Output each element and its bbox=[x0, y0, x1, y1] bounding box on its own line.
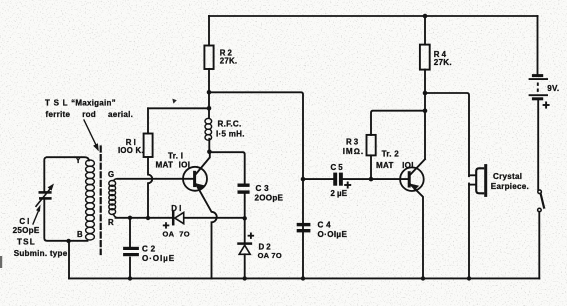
svg-text:9V.: 9V. bbox=[547, 84, 559, 93]
junction dot earpiece tap bbox=[423, 91, 428, 96]
svg-text:27K.: 27K. bbox=[220, 56, 238, 65]
wire: left drop from aerial coil bottom to ground rail bbox=[68, 241, 70, 278]
svg-text:TSL: TSL bbox=[17, 238, 36, 247]
battery plus sign bbox=[543, 102, 550, 109]
svg-text:R: R bbox=[108, 218, 114, 227]
transistor Tr1 collector lead bbox=[196, 152, 210, 174]
junction dot R3 top node bbox=[423, 108, 428, 113]
junction dot C2 tap bbox=[128, 216, 132, 220]
capacitor C4 bbox=[297, 225, 311, 231]
earpiece top terminal stub bbox=[469, 174, 476, 176]
junction dot R3 bottom bbox=[369, 177, 374, 182]
ferrite rod dashed line bbox=[100, 147, 102, 255]
junction dot D2 ground bbox=[243, 276, 247, 280]
RFC choke coil bbox=[205, 118, 212, 140]
resistor R4 bbox=[424, 16, 426, 45]
svg-text:Tr. 2: Tr. 2 bbox=[382, 150, 400, 159]
svg-text:C 3: C 3 bbox=[256, 184, 270, 193]
svg-text:IOO K.: IOO K. bbox=[118, 146, 144, 155]
transistor Tr2 base bar bbox=[408, 173, 411, 186]
wire: G tap to Tr1 base bbox=[118, 178, 194, 180]
svg-text:Earpiece.: Earpiece. bbox=[491, 182, 529, 191]
junction dot aerial loop bottom bbox=[66, 239, 70, 243]
svg-text:G: G bbox=[108, 170, 114, 179]
wire: C5 to Tr2 base bbox=[343, 178, 408, 180]
scan edge mark bbox=[0, 256, 2, 268]
transistor Tr2 circle bbox=[400, 167, 424, 191]
svg-text:R.F.C.: R.F.C. bbox=[218, 119, 242, 128]
junction dot C2 ground bbox=[128, 276, 132, 280]
wire: collector node to C3 bbox=[209, 152, 244, 183]
transistor Tr1 base bar bbox=[193, 172, 196, 185]
junction dot C4 ground bbox=[301, 276, 305, 280]
transistor Tr2 collector lead bbox=[411, 159, 425, 174]
wire: R1 bottom with hop over G wire, down to detector line bbox=[148, 157, 152, 218]
svg-text:C 4: C 4 bbox=[318, 221, 332, 230]
stray scan tick bbox=[172, 99, 177, 104]
capacitor C2 bbox=[129, 218, 131, 279]
battery B1 9V bbox=[529, 76, 548, 99]
plus sign at D2 bbox=[248, 233, 255, 239]
capacitor C5 bbox=[335, 173, 341, 186]
svg-text:2 µE: 2 µE bbox=[331, 189, 348, 198]
junction dot R1 bottom bbox=[146, 216, 150, 220]
label leader arrow from C1 text bbox=[33, 211, 38, 224]
junction dot detector line to D2/C3 line bbox=[243, 216, 247, 220]
wire: C5 tap to C5 bbox=[303, 178, 333, 180]
wire: bottom ground rail bbox=[69, 277, 539, 279]
transistor Tr2 emitter lead with PNP arrow bbox=[411, 185, 423, 279]
svg-text:25OpE: 25OpE bbox=[13, 226, 40, 235]
svg-text:MAT IOI: MAT IOI bbox=[376, 161, 414, 170]
wire: R1 top wire to R2 bottom node bbox=[148, 107, 209, 109]
svg-text:D 2: D 2 bbox=[259, 242, 272, 251]
junction dot R2-to-C4 wire bbox=[207, 90, 212, 95]
svg-text:R 3: R 3 bbox=[346, 137, 359, 146]
svg-text:I·5 mH.: I·5 mH. bbox=[216, 130, 245, 139]
transistor Tr1 emitter lead with PNP arrow, hop over detector wire bbox=[196, 184, 217, 278]
svg-text:Y: Y bbox=[76, 156, 82, 165]
svg-text:27K.: 27K. bbox=[434, 58, 452, 67]
capacitor C3 bbox=[238, 185, 250, 192]
plus sign at C5 bbox=[344, 182, 351, 189]
svg-text:Crystal: Crystal bbox=[493, 172, 522, 181]
svg-text:Submin. type: Submin. type bbox=[14, 249, 68, 258]
leader arrow from aerial label to ferrite rod bbox=[84, 120, 96, 145]
svg-text:MAT IOI: MAT IOI bbox=[156, 161, 191, 170]
junction dot earpiece ground bbox=[467, 276, 471, 280]
junction dot R1 top node bbox=[207, 106, 212, 111]
wire: earpiece feed bbox=[425, 93, 469, 176]
svg-text:C 2: C 2 bbox=[142, 245, 156, 254]
svg-text:IMΩ.: IMΩ. bbox=[343, 147, 364, 156]
variable capacitor C1 arrow bbox=[36, 189, 50, 206]
resistor R2 bbox=[208, 16, 210, 46]
junction dot Tr2 emitter ground bbox=[421, 276, 425, 280]
aerial winding 2 (G-R) bbox=[109, 179, 118, 218]
variable capacitor C1 plates bbox=[39, 192, 52, 198]
wire: top supply rail bbox=[209, 15, 538, 17]
aerial tuned loop frame bbox=[44, 157, 89, 241]
svg-text:2OOpE: 2OOpE bbox=[255, 194, 284, 203]
switch S1 bbox=[538, 190, 544, 212]
wire: switch to bottom-right corner bbox=[538, 212, 540, 279]
svg-text:Tr. I: Tr. I bbox=[168, 152, 183, 161]
wire: R tap detector line bbox=[116, 217, 245, 219]
diode D1 bbox=[173, 212, 184, 224]
svg-text:OA 7O: OA 7O bbox=[163, 230, 190, 239]
crystal earpiece cup bbox=[476, 168, 483, 193]
resistor R3 bbox=[370, 155, 372, 179]
earpiece bottom terminal stub bbox=[469, 184, 476, 186]
aerial winding 1 (Y-B) bbox=[86, 160, 95, 240]
transistor Tr1 circle bbox=[183, 167, 207, 191]
svg-text:C I: C I bbox=[19, 217, 29, 226]
crystal earpiece bar bbox=[484, 164, 487, 197]
wire: battery to switch bbox=[537, 100, 539, 190]
junction dot R4 top rail bbox=[423, 14, 428, 19]
wire: battery feed down from top rail bbox=[537, 16, 539, 74]
wire: earpiece bottom to ground rail bbox=[468, 184, 470, 279]
plus sign at D1 bbox=[163, 222, 170, 228]
svg-text:D I: D I bbox=[171, 204, 181, 213]
junction dot C5 tap bbox=[301, 177, 306, 182]
svg-text:B: B bbox=[77, 230, 83, 239]
junction dot Tr1 collector node bbox=[207, 149, 212, 154]
svg-text:T S L “Maxigain”: T S L “Maxigain” bbox=[45, 99, 116, 108]
svg-text:OA 7O: OA 7O bbox=[258, 251, 282, 260]
wire: stage coupling from R2 node to C4/C5 node bbox=[209, 92, 303, 278]
svg-text:O·OIµE: O·OIµE bbox=[318, 230, 348, 239]
diode D2 bbox=[239, 244, 251, 255]
resistor R1 bbox=[147, 108, 149, 133]
svg-text:O·OIµE: O·OIµE bbox=[142, 254, 175, 263]
svg-text:C 5: C 5 bbox=[331, 163, 344, 172]
svg-text:ferrite rod aerial.: ferrite rod aerial. bbox=[46, 110, 134, 119]
